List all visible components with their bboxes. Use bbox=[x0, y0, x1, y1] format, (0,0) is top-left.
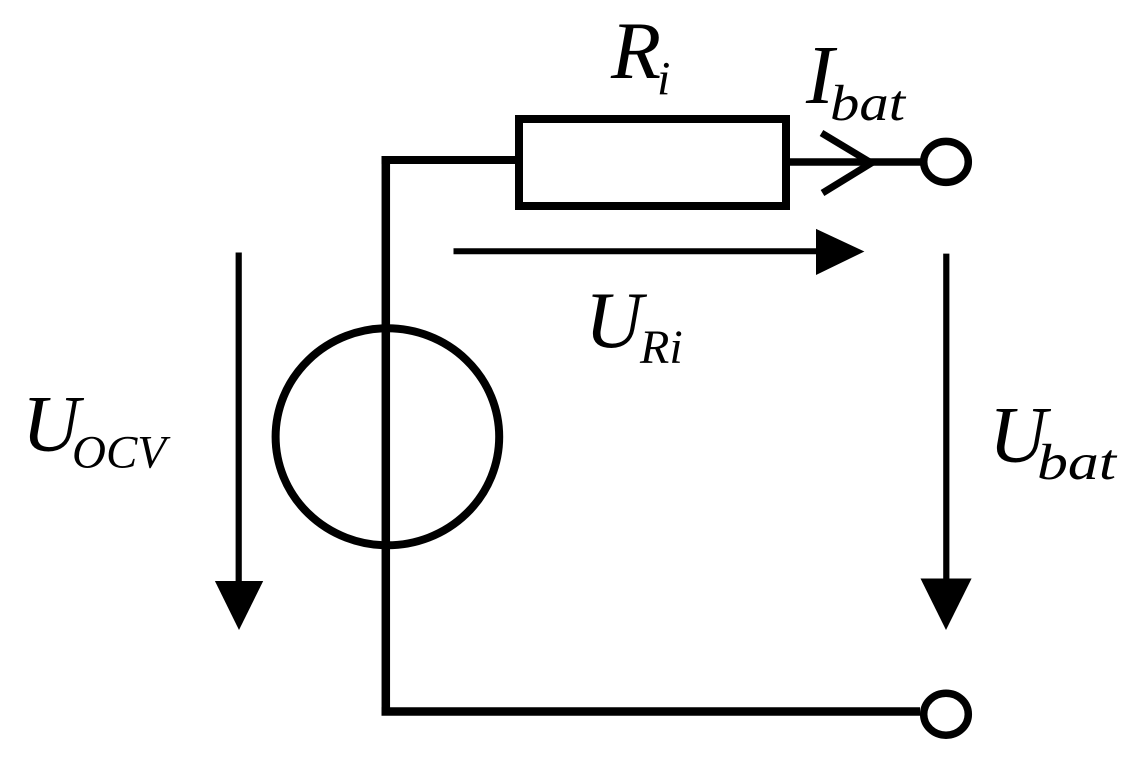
wire resistor to top terminal bbox=[786, 158, 924, 166]
label I_bat bbox=[805, 29, 907, 132]
svg-text:Ri: Ri bbox=[639, 321, 683, 374]
label R_i bbox=[610, 5, 670, 106]
svg-text:i: i bbox=[657, 53, 670, 106]
bottom terminal node bbox=[924, 693, 969, 735]
label U_OCV bbox=[22, 381, 171, 479]
top terminal node bbox=[924, 141, 969, 182]
wire bottom horizontal bbox=[382, 707, 921, 716]
svg-text:U: U bbox=[585, 277, 648, 365]
arrow U_OCV (left, down) bbox=[215, 253, 263, 631]
wire left vertical bbox=[382, 156, 391, 716]
resistor R1 body bbox=[519, 119, 786, 206]
svg-text:bat: bat bbox=[830, 76, 907, 132]
current arrow chevron I_bat bbox=[822, 133, 874, 193]
svg-text:OCV: OCV bbox=[72, 427, 171, 479]
arrow U_bat (right, down) bbox=[921, 254, 972, 630]
voltage source U_OCV circle bbox=[276, 328, 500, 545]
wire top-left horizontal bbox=[382, 156, 520, 164]
label U_bat bbox=[989, 392, 1118, 492]
label U_Ri bbox=[585, 277, 683, 374]
svg-text:R: R bbox=[610, 5, 661, 96]
svg-text:bat: bat bbox=[1037, 435, 1118, 491]
arrow U_Ri (horizontal, right) bbox=[454, 229, 865, 275]
